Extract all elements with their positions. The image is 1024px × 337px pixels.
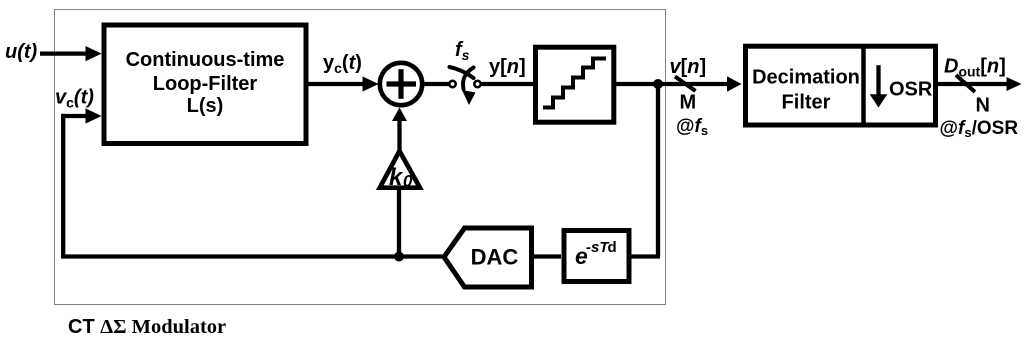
svg-text:0: 0 [403,172,413,191]
svg-text:CT ΔΣ Modulator: CT ΔΣ Modulator [68,316,226,337]
svg-text:vc(t): vc(t) [55,87,94,111]
svg-text:u(t): u(t) [5,41,38,63]
svg-text:Decimation: Decimation [752,67,860,89]
svg-text:Loop-Filter: Loop-Filter [153,73,258,95]
svg-text:@fs/OSR: @fs/OSR [940,118,1019,140]
svg-text:Filter: Filter [782,91,831,113]
svg-text:@fs: @fs [676,116,708,138]
svg-text:yc(t): yc(t) [323,52,362,76]
svg-text:L(s): L(s) [187,95,224,117]
svg-text:Dout[n]: Dout[n] [944,56,1006,80]
svg-text:v[n]: v[n] [670,56,707,78]
svg-text:y[n]: y[n] [489,56,526,78]
svg-text:M: M [680,92,697,114]
svg-text:k: k [389,164,404,191]
svg-text:d: d [608,239,617,256]
svg-text:N: N [976,95,990,117]
svg-text:OSR: OSR [889,79,933,101]
svg-text:DAC: DAC [471,245,519,270]
svg-text:fs: fs [455,39,470,63]
svg-text:Continuous-time: Continuous-time [126,49,285,71]
